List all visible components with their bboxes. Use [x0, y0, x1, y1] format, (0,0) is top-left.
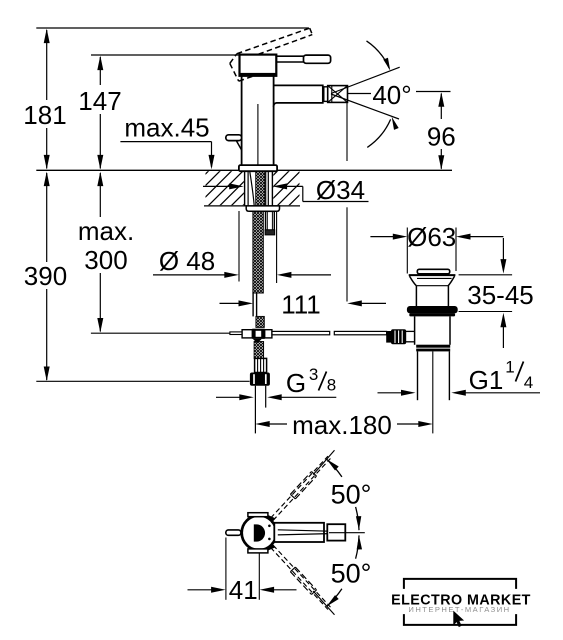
svg-text:40°: 40° [372, 80, 411, 110]
svg-text:50°: 50° [331, 480, 372, 510]
counter bottom line [204, 205, 300, 207]
dimension 147 vertical line with arrows and label [78, 56, 121, 170]
dashed handle swivel position upper 50 deg [271, 450, 335, 520]
drain valve flange black ring [407, 306, 458, 316]
svg-text:300: 300 [84, 245, 127, 275]
plan view D-shaped cartridge port [254, 524, 265, 541]
dimension 111 with arrows and label [220, 290, 387, 320]
faucet base ring on counter [239, 165, 277, 171]
svg-text:max.45: max.45 [124, 113, 209, 143]
angular dimension 50 degrees lower [325, 535, 372, 608]
svg-text:4: 4 [524, 373, 533, 392]
logo bracket frame [404, 579, 516, 625]
label G1 1/4 with dimension arrows [378, 358, 541, 396]
counter cross-section hatching [206, 171, 300, 205]
drain tailpipe nut bands [416, 345, 450, 352]
label 40 degrees with reference line [348, 80, 451, 110]
dimension diameter 48 arrows and label [153, 246, 331, 278]
extension line hose end (390 level) [36, 380, 249, 382]
extension lines for diameter 48 [239, 211, 277, 283]
G3/8 connection nut [250, 373, 270, 386]
pop-up rod knob on faucet body [226, 135, 242, 150]
counter top surface line [36, 169, 452, 171]
logo subtitle [408, 605, 510, 614]
svg-text:8: 8 [327, 376, 336, 395]
svg-text:Ø34: Ø34 [316, 175, 365, 205]
svg-text:Ø 48: Ø 48 [159, 246, 215, 276]
plan view pop-up rod tab [226, 530, 241, 535]
dimension 96 vertical with arrows [427, 92, 456, 170]
svg-text:ИНТЕРНЕТ-МАГАЗИН: ИНТЕРНЕТ-МАГАЗИН [408, 605, 510, 614]
label G 3/8 [286, 365, 336, 398]
dimension 390 vertical line with arrows and label [24, 172, 67, 381]
svg-text:50°: 50° [331, 559, 372, 589]
pop-up rod clamp at faucet [91, 329, 272, 344]
drain tailpipe with centerline [418, 351, 450, 433]
drain valve upper flare [409, 275, 456, 286]
dimension diameter 34 with leader and label [203, 175, 369, 205]
threaded shank and hoses through counter hole [245, 171, 273, 206]
spray fan lines 40 degrees [331, 67, 400, 119]
plan circle lever root wedges [268, 515, 276, 551]
svg-text:Ø63: Ø63 [407, 222, 456, 252]
hose crimp connector [255, 358, 267, 372]
plan view fixing holes [268, 525, 271, 541]
svg-text:G1: G1 [469, 365, 504, 395]
dimension 181 vertical line with arrows and label [23, 29, 66, 170]
braided supply hose below counter [253, 211, 263, 293]
logo text ELECTRO MARKET [391, 592, 531, 608]
upper fan angle arc arrow [367, 41, 393, 72]
pipe diameter dimension arrows [216, 394, 336, 400]
lever handle horizontal with paddle tip [276, 55, 330, 63]
mounting stud with foot [265, 211, 275, 235]
extension line top of handle (181 level) [36, 27, 309, 29]
svg-text:390: 390 [24, 261, 67, 291]
projection line from aerator tip [346, 102, 348, 301]
svg-text:max.: max. [78, 216, 134, 246]
knurled connection knob on drain [386, 329, 414, 344]
angular dimension 50 degrees upper [325, 457, 372, 530]
svg-text:41: 41 [229, 575, 258, 605]
svg-text:181: 181 [23, 100, 66, 130]
plan view handle axis line [329, 532, 365, 534]
faucet head housing [240, 55, 277, 76]
drain valve plug cap [417, 269, 449, 274]
plan view lever handle with paddle [274, 523, 345, 542]
plan view mounting flats [248, 513, 268, 553]
svg-text:3: 3 [309, 365, 318, 384]
dimension max.180 with arrows and label [255, 410, 433, 440]
logo mouse cursor [453, 611, 464, 628]
svg-text:147: 147 [78, 86, 121, 116]
aerator with spray cross pattern [328, 86, 348, 103]
dashed handle swivel position lower 50 deg [271, 545, 335, 615]
dashed handle in raised position (front view) [230, 28, 312, 81]
faucet body cylinder [242, 76, 274, 165]
lower fan angle arc arrow [367, 116, 398, 148]
svg-text:35-45: 35-45 [467, 280, 534, 310]
spout with aerator ring [274, 85, 328, 107]
svg-text:G: G [286, 368, 306, 398]
svg-text:1: 1 [505, 358, 514, 377]
extension line top of body (147 level) [91, 54, 277, 56]
supply pipe section [253, 293, 257, 317]
drain valve upper cylinder [416, 286, 448, 307]
supply pipe end below G3/8 nut [255, 386, 265, 434]
svg-text:111: 111 [281, 290, 321, 320]
horizontal pop-up rod with break [272, 331, 387, 334]
mounting nut under counter [246, 206, 279, 211]
dimension max.300 vertical line with arrows and label [78, 172, 134, 333]
dimension diameter 63 arrows and label [370, 222, 503, 252]
plan view faucet body circle [242, 516, 277, 551]
dimension max.45 label and leader arrow to counter top [120, 113, 214, 170]
svg-text:max.180: max.180 [292, 410, 392, 440]
drain valve body [415, 316, 450, 344]
extension lines diameter 63 [407, 228, 456, 274]
braided hose short section [256, 316, 264, 327]
svg-text:96: 96 [427, 122, 456, 152]
braided hose below rod clamp [254, 342, 264, 359]
dimension 41 with arrows and label [188, 538, 297, 606]
dimension 35-45 with arrows and label [459, 238, 534, 348]
